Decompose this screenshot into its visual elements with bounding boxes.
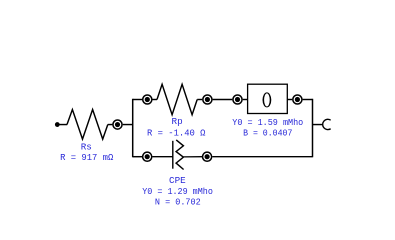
svg-text:Rs: Rs [81,141,92,152]
node: O element right connector [293,95,302,104]
wire: node to CPE plate [152,156,172,158]
svg-text:CPE: CPE [169,175,186,186]
svg-text:R = -1.40 Ω: R = -1.40 Ω [147,127,206,138]
wire: CPE node to right bus [212,156,312,158]
wire: Rp node to O element node [213,99,233,101]
svg-text:Y0 = 1.29 mMho: Y0 = 1.29 mMho [142,186,213,197]
wire: node to right bus [303,99,313,101]
wire: right bus vertical [312,99,314,157]
svg-text:N = 0.702: N = 0.702 [155,197,201,208]
svg-text:R = 917 mΩ: R = 917 mΩ [60,152,114,163]
CPE element zigzag [176,140,184,170]
Warburg element O1 (box) [248,84,288,113]
terminal C (open output terminal) [323,119,331,129]
wire: node to Rp [153,99,158,101]
resistor Rp (zigzag) [157,84,197,114]
wire: left bus to Rp node [133,99,143,101]
CPE element plate (vertical bar) [172,141,174,169]
node: O element left connector [233,95,242,104]
Warburg element O1 symbol "0" [263,92,272,107]
wire: Rp to node [197,99,202,101]
wire: Rs to node [108,124,113,126]
wire: left terminal to Rs [59,124,67,126]
wire: CPE to right node [183,156,202,158]
wire: right bus to output terminal [313,124,323,126]
node: Rp left connector [143,95,152,104]
svg-text:Rp: Rp [172,116,183,127]
wire: left bus vertical [132,99,134,157]
terminal dot (left input) [55,122,60,127]
node: Rp right connector [203,95,212,104]
wire: box to right node [287,99,292,101]
node: Rs right connector [113,120,122,129]
svg-text:B = 0.0407: B = 0.0407 [243,127,292,138]
node: CPE right connector [203,152,212,161]
node: CPE left connector [143,152,152,161]
wire: left bus to CPE node [133,156,142,158]
wire: node to O element box [243,99,248,101]
resistor Rs (zigzag) [67,110,108,140]
wire: node to left bus [123,124,133,126]
